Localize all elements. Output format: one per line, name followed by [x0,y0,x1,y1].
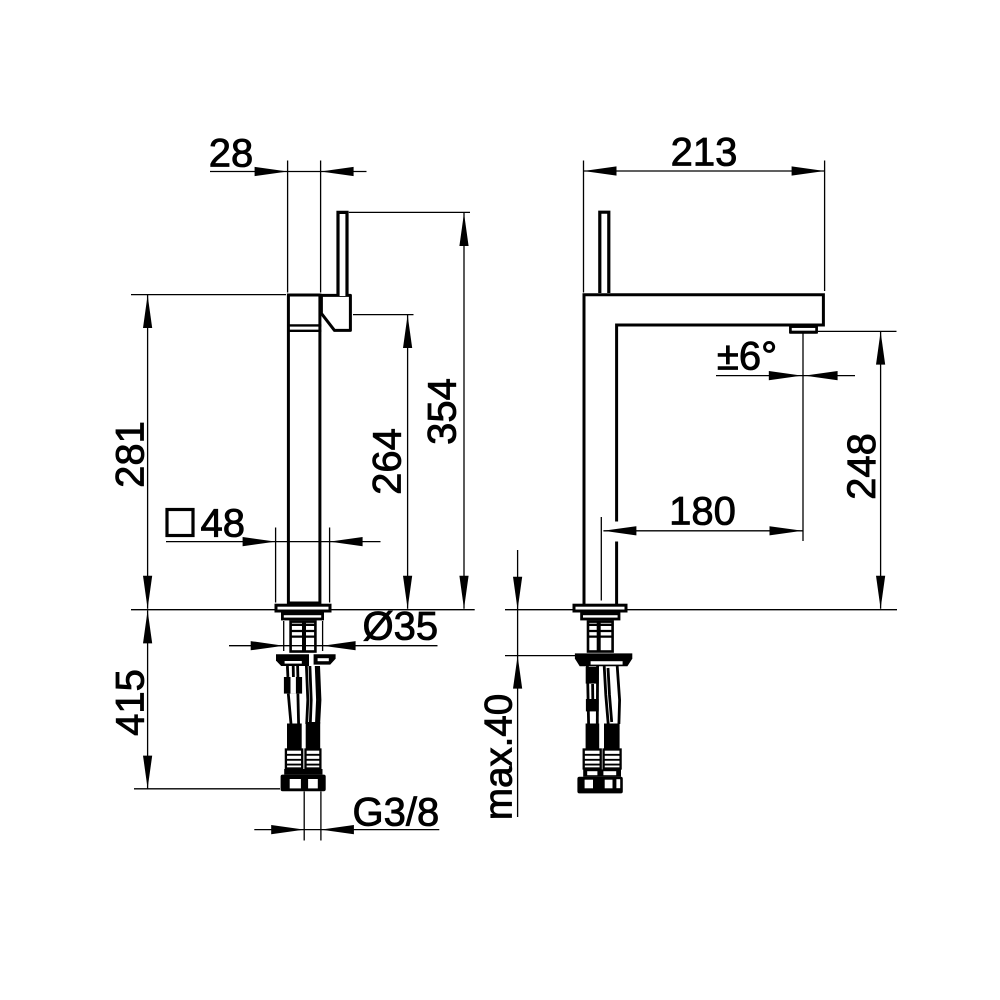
svg-text:354: 354 [421,378,465,445]
fixing stud (front) [286,666,289,677]
svg-text:213: 213 [671,131,738,175]
hose lines (front) [288,694,291,724]
hose crimp right (side) [604,750,621,769]
dim 248 lines [880,332,882,609]
dim 354 lines [463,213,465,609]
arrows dim 48 [243,537,276,546]
dim 415 lines [147,610,149,788]
dim 28 lines [210,171,367,173]
hose dark segments (side) [586,667,599,684]
mounting surface line right [505,609,897,611]
stud nut (front) [284,677,302,694]
threaded shank ladder (side) [588,622,613,652]
arrows dim 248 [876,332,885,365]
svg-text:±6°: ±6° [717,335,777,379]
shank flange (side) [582,614,619,619]
svg-text:max.40: max.40 [477,694,520,820]
svg-text:Ø35: Ø35 [363,605,439,649]
lever rod (side) [600,212,609,293]
dim 213 lines [584,170,825,172]
hose dark segment left (front) [287,724,302,750]
arrows dim 28 [255,167,288,176]
column right edge lower segment (side) [615,542,618,605]
arrows dim 180 [603,526,636,535]
arrows dim 281 [143,295,152,328]
dim 48 lines [166,541,381,543]
G3/8 nuts (front) [281,775,326,792]
svg-text:415: 415 [109,669,153,736]
G3/8 nuts (side) [577,777,622,794]
mounting surface line left [131,609,475,611]
G3/8 nut collar (front) [284,769,322,775]
svg-text:180: 180 [669,490,736,534]
hex mounting nut (side) [575,653,632,666]
arrows dim O35 [251,641,284,650]
G3/8 nut collar (side) [583,769,621,776]
svg-text:G3/8: G3/8 [353,791,440,835]
arrows dim 415 [143,610,152,643]
threaded shank ladder (front) [291,622,316,652]
arrows dim G3/8 [271,825,304,834]
svg-text:264: 264 [366,428,410,495]
dim 281 lines [147,295,149,609]
lever base (front) [321,295,350,330]
aerator (side) [790,327,816,333]
dim G3/8 lines [254,829,439,831]
shank flange (front) [282,614,322,619]
hex mounting nut right part (front) [314,654,336,664]
svg-text:248: 248 [840,433,884,500]
hex mounting nut left part (front) [276,654,309,666]
svg-text:281: 281 [109,421,153,488]
arrows dim 264 [403,315,412,348]
body seam line upper [287,324,321,326]
dim +-6 line [716,375,855,377]
svg-text:28: 28 [209,132,254,176]
column centerline (side) [600,517,602,601]
aerator centerline (side) [802,333,804,541]
dim 180 line [603,530,802,532]
faucet column and spout outline (side) [584,295,823,604]
faucet body column (front) [288,295,320,603]
body seam line lower [287,330,321,332]
base plate (front) [276,605,330,611]
dim max.40 lines [517,550,519,817]
hose crimp left (front) [286,750,302,769]
label square 48 [167,510,193,536]
arrows dim 213 [584,166,617,175]
arrows dim 354 [459,213,468,246]
dim 264 lines [407,315,409,609]
dim O35 lines [229,645,438,647]
hose crimp left (side) [584,750,601,769]
base plate (side) [574,605,626,611]
arrows dim +-6 [769,371,802,380]
hose dark segment right (front) [306,722,321,749]
lever rod (front) [338,212,347,296]
arrows dim max.40 [513,577,522,610]
svg-text:48: 48 [201,502,246,546]
hose lines (side) [587,666,588,724]
hose crimp right (front) [306,750,321,769]
